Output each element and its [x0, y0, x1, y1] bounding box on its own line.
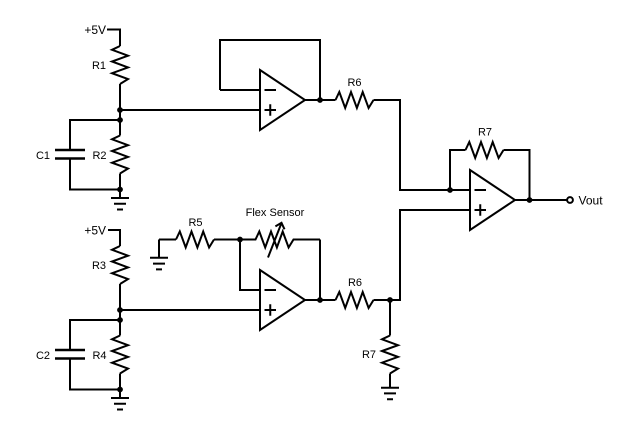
capacitor C1	[55, 150, 85, 159]
resistor R2	[112, 136, 128, 174]
svg-text:C1: C1	[36, 150, 50, 162]
wire divider node to op-amp U3 + input	[120, 309, 260, 311]
flex sensor RF (variable resistor)	[240, 232, 320, 248]
svg-text:Flex Sensor: Flex Sensor	[246, 207, 305, 219]
node C1 tap (dot)	[117, 117, 123, 123]
ground (bottom divider)	[111, 398, 129, 410]
node U1 output (dot)	[317, 97, 323, 103]
resistor R4	[112, 336, 128, 374]
svg-text:Vout: Vout	[579, 194, 604, 208]
node C2 tap (dot)	[117, 317, 123, 323]
U2 plus symbol	[475, 204, 487, 216]
svg-text:R7: R7	[478, 127, 492, 139]
ground (top divider)	[111, 198, 129, 210]
resistor R7 (bottom)	[382, 336, 398, 374]
U3 minus symbol	[265, 289, 277, 291]
wire U2 output to terminal	[515, 199, 567, 201]
wire R5 right lead	[214, 239, 240, 241]
wire flex right leg to U3 output	[319, 240, 321, 301]
svg-text:R6: R6	[347, 77, 361, 89]
flex sensor arrow	[268, 223, 285, 258]
wire divider node to op-amp U1 + input	[120, 109, 260, 111]
svg-text:R4: R4	[92, 350, 106, 362]
svg-text:+5V: +5V	[84, 23, 106, 37]
node divider top (dot)	[117, 107, 123, 113]
node R5/flex junction (dot)	[237, 237, 243, 243]
wire R1 bottom to R2 top	[119, 84, 121, 136]
wire R7 bottom lead	[389, 300, 391, 336]
svg-text:+5V: +5V	[84, 224, 106, 238]
wire R6 to U2 + input	[374, 210, 471, 300]
feedback wire op-amp U1 (output to - input)	[220, 40, 320, 100]
node U2 - input junction (dot)	[447, 187, 453, 193]
node R4/C2/ground junction (dot)	[117, 387, 123, 393]
svg-text:R1: R1	[92, 60, 106, 72]
U3 plus symbol	[265, 304, 277, 316]
resistor R6 (bottom)	[336, 292, 374, 308]
ground (R7)	[381, 388, 399, 400]
wire +5V to R3 top	[108, 230, 120, 246]
svg-text:C2: C2	[36, 350, 50, 362]
terminal Vout (open circle)	[567, 197, 573, 203]
resistor R7 (feedback)	[466, 142, 504, 158]
wire R5 left lead	[159, 239, 176, 241]
op-amp U2	[470, 170, 515, 230]
resistor R6 (top)	[336, 92, 374, 108]
wire +5V to R1 top	[107, 30, 120, 47]
ground (R5)	[150, 240, 168, 270]
wire R6 to U2 - input	[374, 100, 471, 190]
wire R3 bottom to R4 top	[119, 284, 121, 336]
wire C2 bottom branch	[70, 360, 120, 390]
node U2 output (dot)	[527, 197, 533, 203]
resistor R5	[176, 232, 214, 248]
resistor R3	[112, 246, 128, 284]
wire R7 to ground	[389, 374, 391, 388]
node divider bottom (dot)	[117, 307, 123, 313]
wire R7 feedback right leg	[504, 150, 530, 200]
wire R4 bottom to ground	[119, 374, 121, 398]
node R2/C1/ground junction (dot)	[117, 187, 123, 193]
svg-text:R5: R5	[188, 217, 202, 229]
wire C1 bottom branch	[70, 160, 120, 190]
wire C1 top branch	[70, 120, 120, 149]
wire U1 output	[305, 99, 336, 101]
wire C2 top branch	[70, 320, 120, 349]
op-amp U1	[260, 70, 305, 130]
capacitor C2	[55, 350, 85, 359]
node R6/R7 junction (dot)	[387, 297, 393, 303]
U1 plus symbol	[265, 104, 277, 116]
wire R7 feedback left leg	[450, 150, 466, 190]
resistor R1	[112, 46, 128, 84]
svg-text:R2: R2	[92, 150, 106, 162]
U2 minus symbol	[475, 189, 487, 191]
svg-text:R6: R6	[348, 277, 362, 289]
wire U3 output	[305, 299, 336, 301]
wire U1 - input	[220, 89, 260, 91]
svg-text:R7: R7	[362, 349, 376, 361]
op-amp U3	[260, 270, 305, 330]
wire U3 - input feedback	[240, 240, 260, 291]
U1 minus symbol	[265, 89, 277, 91]
node U3 output (dot)	[317, 297, 323, 303]
wire R2 bottom to ground	[119, 174, 121, 198]
svg-text:R3: R3	[92, 260, 106, 272]
